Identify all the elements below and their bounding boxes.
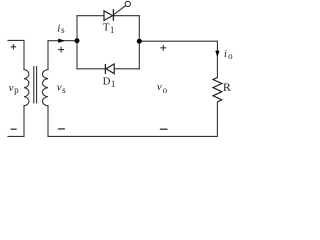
label + (v_o) xyxy=(160,45,166,51)
node output junction xyxy=(137,39,142,44)
svg-text:is: is xyxy=(57,22,65,35)
current arrow i_o xyxy=(215,51,219,58)
resistor R xyxy=(213,78,222,102)
gate terminal circle xyxy=(125,1,130,6)
wire top branch through T1 xyxy=(77,15,139,17)
current arrow i_s xyxy=(58,39,65,43)
svg-text:R: R xyxy=(223,80,231,94)
transformer core xyxy=(34,67,37,103)
svg-text:io: io xyxy=(224,48,233,61)
node secondary junction xyxy=(75,38,80,43)
svg-text:vp: vp xyxy=(9,82,19,95)
wire bottom branch through D1 xyxy=(77,68,139,70)
transformer primary winding xyxy=(24,70,29,106)
diode D1 xyxy=(105,64,114,74)
label + (v_s) xyxy=(58,47,64,53)
wire secondary top lead xyxy=(48,41,77,70)
wire right branch vertical xyxy=(138,16,140,69)
wire primary top lead xyxy=(8,40,24,69)
svg-text:vo: vo xyxy=(157,81,168,95)
gate lead of T1 xyxy=(113,6,125,15)
wire secondary bottom lead xyxy=(47,106,49,137)
wire primary bottom lead xyxy=(8,106,24,137)
wire resistor bottom lead xyxy=(216,102,218,136)
wire left branch vertical xyxy=(76,16,78,69)
svg-text:D1: D1 xyxy=(103,75,116,89)
label + (v_p) xyxy=(11,44,16,49)
svg-text:vs: vs xyxy=(57,81,66,95)
wire output to resistor xyxy=(139,41,217,77)
transformer secondary winding xyxy=(42,70,48,106)
label - (v_p) xyxy=(11,128,17,130)
svg-text:T1: T1 xyxy=(103,22,115,35)
wire bottom rail xyxy=(48,135,217,137)
label - (v_o) xyxy=(160,128,168,130)
thyristor T1 xyxy=(104,9,113,21)
label - (v_s) xyxy=(58,128,65,130)
